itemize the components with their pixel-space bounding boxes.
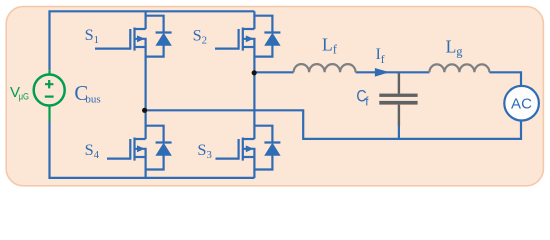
node B junction dot [252,70,257,75]
wire: return path node A to AC bottom [145,110,521,139]
inductor coil Lf [294,64,356,72]
capacitor Cf bottom plate [379,101,417,105]
capacitor Cf top plate [379,94,417,97]
plus sign [45,80,53,88]
wire: S2 source to node B and S3 drain [253,47,255,139]
wire: Cf bottom blue segment [398,126,400,139]
transistor S2 [215,28,254,51]
wire: S2 drain vertical [253,11,255,29]
transistor S3 [216,138,255,161]
AC grid source circle [504,86,539,121]
node A junction dot [142,108,147,113]
wire: green stub below source [48,105,50,121]
current If arrow [375,68,390,77]
svg-text:μG: μG [19,91,29,102]
voltage source VuG circle [34,75,65,106]
label Cbus [74,82,100,105]
wire: S1 drain vertical [145,11,147,29]
wire: left rail bottom [50,121,255,178]
wire: node B to Lf [254,71,293,73]
wire: top DC bus [50,11,255,70]
diode of S1 [146,16,172,57]
wire: S3 source to bottom bus [253,157,255,178]
wire: green stub above source [48,70,50,75]
minus sign [45,95,54,97]
wire: Lg to AC source top [489,72,521,86]
inductor coil Lg [429,64,489,72]
wire: S1 source to node A and S4 drain [145,47,147,139]
wire: S4 source to bottom bus [145,157,147,178]
label Cf [356,87,369,108]
transistor S1 [95,28,146,51]
diode of S3 [254,126,280,170]
panel background [6,7,543,186]
capacitor Cf leads [398,73,400,126]
svg-text:AC: AC [511,95,532,112]
svg-text:bus: bus [85,93,100,105]
diode of S4 [146,126,172,170]
wire: Lf to Lg (through Cf tap) [356,71,430,73]
transistor S4 [107,138,146,161]
diode of S2 [254,16,280,57]
label VuG [10,84,29,102]
